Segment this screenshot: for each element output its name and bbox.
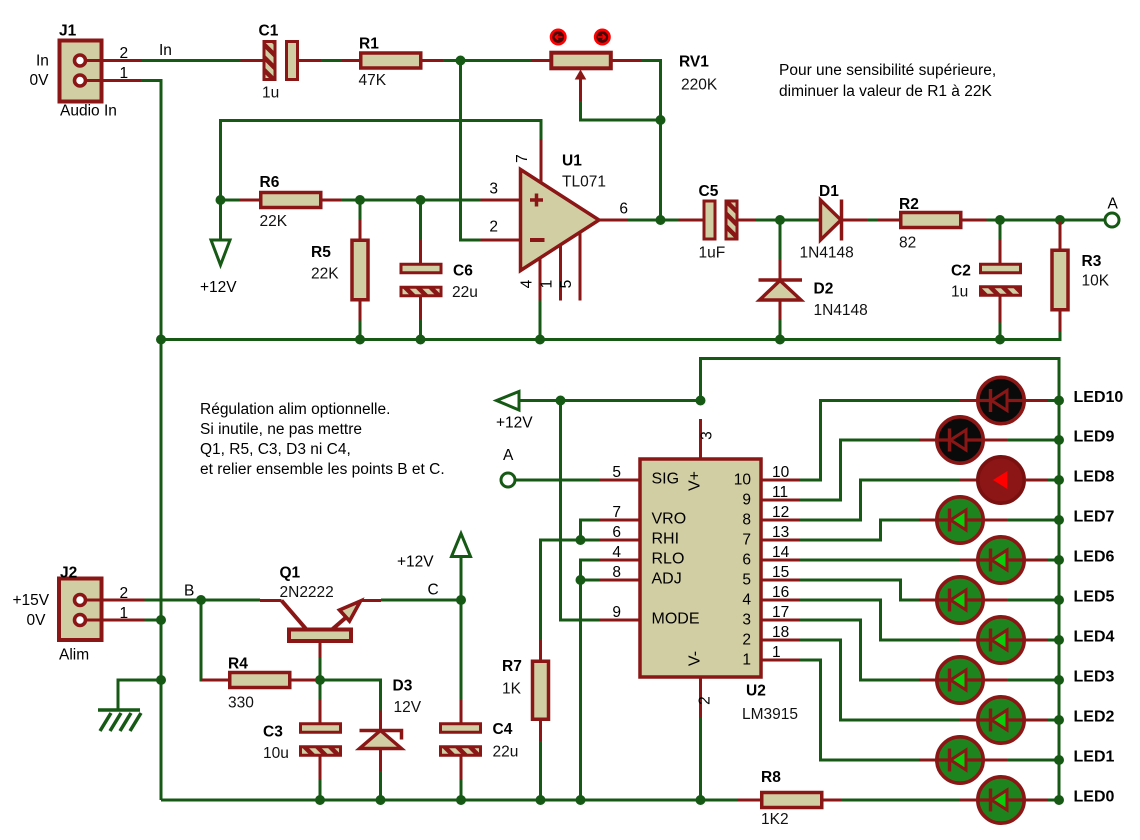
U1 pin 3 stub bbox=[481, 181, 521, 201]
connector J2 Alim bbox=[13, 565, 145, 664]
svg-text:22K: 22K bbox=[260, 213, 288, 230]
svg-text:R7: R7 bbox=[502, 658, 522, 675]
U2 right pin 17 stub bbox=[761, 604, 800, 621]
svg-text:12: 12 bbox=[772, 504, 789, 521]
LED LED0 bbox=[960, 777, 1059, 823]
net label LED4 bbox=[1074, 629, 1115, 646]
wire node to D3 bbox=[320, 680, 381, 711]
svg-text:17: 17 bbox=[772, 604, 789, 621]
capacitor C2 bbox=[951, 220, 1021, 339]
LED LED6 bbox=[960, 537, 1059, 583]
svg-text:In: In bbox=[159, 42, 172, 59]
svg-text:D3: D3 bbox=[393, 678, 413, 695]
junction R4 right node bbox=[315, 675, 325, 685]
junction node C bbox=[456, 595, 466, 605]
wire U2 pin to LED4 bbox=[800, 600, 960, 640]
svg-text:R3: R3 bbox=[1082, 253, 1102, 270]
U1 pin 2 stub bbox=[481, 219, 521, 241]
junction MODE net bbox=[556, 396, 566, 406]
svg-text:12V: 12V bbox=[394, 699, 422, 716]
svg-text:1N4148: 1N4148 bbox=[814, 302, 868, 319]
U2 left pin 6 stub bbox=[600, 524, 640, 541]
U2 inside pin number 5 bbox=[742, 572, 751, 589]
junction bus LED3 bbox=[1054, 675, 1064, 685]
U2 inside pin number 6 bbox=[742, 552, 751, 569]
svg-text:B: B bbox=[184, 583, 194, 600]
note regulation bbox=[200, 401, 445, 478]
resistor R5 bbox=[311, 202, 368, 338]
svg-text:LED9: LED9 bbox=[1074, 429, 1115, 446]
svg-text:A: A bbox=[503, 447, 514, 464]
node A terminal bbox=[1105, 196, 1119, 228]
wire MODE vertical bbox=[561, 401, 601, 621]
svg-text:MODE: MODE bbox=[652, 611, 700, 628]
svg-text:1u: 1u bbox=[262, 85, 279, 102]
junction bottom rail U2 pin2 bbox=[696, 795, 706, 805]
wire U2 pin2 to 0V rail bbox=[699, 718, 702, 798]
junction bus LED7 bbox=[1054, 515, 1064, 525]
svg-text:LED7: LED7 bbox=[1074, 509, 1115, 526]
LED LED10 bbox=[960, 377, 1059, 423]
LED LED1 bbox=[919, 737, 1059, 783]
svg-text:+15V: +15V bbox=[13, 592, 50, 609]
svg-text:C6: C6 bbox=[453, 263, 473, 280]
wire +12V to U2 pin3 bbox=[519, 399, 701, 402]
wire U2 pin to LED9 bbox=[800, 440, 919, 500]
resistor R4 bbox=[201, 656, 318, 712]
svg-text:+12V: +12V bbox=[200, 279, 237, 296]
svg-text:A: A bbox=[1108, 196, 1119, 213]
svg-text:Audio In: Audio In bbox=[60, 103, 117, 120]
svg-text:1K2: 1K2 bbox=[761, 811, 789, 828]
svg-text:LED1: LED1 bbox=[1074, 749, 1115, 766]
wire C5 to D1 bbox=[756, 219, 817, 222]
junction R6 left node bbox=[216, 195, 226, 205]
svg-text:2: 2 bbox=[489, 219, 498, 236]
junction bus LED9 bbox=[1054, 435, 1064, 445]
svg-text:6: 6 bbox=[742, 552, 751, 569]
U2 left pin 7 stub bbox=[600, 504, 640, 521]
svg-text:5: 5 bbox=[558, 280, 575, 289]
svg-text:6: 6 bbox=[619, 201, 628, 218]
net label B bbox=[184, 583, 194, 600]
svg-text:VRO: VRO bbox=[652, 511, 687, 528]
svg-text:R5: R5 bbox=[311, 244, 331, 261]
wire 0V vertical rail bbox=[141, 81, 161, 801]
svg-text:RV1: RV1 bbox=[679, 54, 709, 71]
U2 inside pin number 10 bbox=[734, 472, 752, 489]
U1 pin 5 stub bbox=[558, 233, 580, 301]
svg-text:C4: C4 bbox=[493, 721, 513, 738]
svg-text:1: 1 bbox=[742, 652, 751, 669]
svg-text:R8: R8 bbox=[761, 769, 781, 786]
U2 label SIG bbox=[652, 471, 680, 488]
svg-text:LED0: LED0 bbox=[1074, 789, 1115, 806]
wire RLO net bbox=[581, 560, 601, 580]
potentiometer RV1 bbox=[532, 53, 718, 94]
svg-text:In: In bbox=[36, 53, 49, 70]
diode D2 1N4148 bbox=[759, 220, 868, 339]
svg-text:22K: 22K bbox=[311, 266, 339, 283]
junction bus LED0 bbox=[1054, 795, 1064, 805]
svg-text:10: 10 bbox=[772, 464, 790, 481]
svg-text:C1: C1 bbox=[259, 22, 279, 39]
svg-text:U1: U1 bbox=[562, 153, 582, 170]
wire ADJ net to rail bbox=[581, 580, 601, 798]
svg-text:4: 4 bbox=[612, 544, 621, 561]
svg-text:5: 5 bbox=[612, 464, 621, 481]
junction bus LED5 bbox=[1054, 595, 1064, 605]
diode D1 1N4148 bbox=[800, 183, 868, 262]
junction mid rail C6 bottom bbox=[416, 335, 426, 345]
U2 label V+ bbox=[687, 471, 704, 491]
svg-text:3: 3 bbox=[489, 181, 498, 198]
U2 label RHI bbox=[652, 531, 680, 548]
junction mid rail rail bbox=[156, 335, 166, 345]
U1 pin 4 stub bbox=[519, 258, 541, 338]
junction R5 top bbox=[355, 195, 365, 205]
connector J1 Audio In bbox=[30, 22, 143, 119]
svg-text:10K: 10K bbox=[1082, 273, 1110, 290]
power +12V symbol U1 bbox=[200, 202, 237, 296]
svg-text:D2: D2 bbox=[814, 281, 834, 298]
LED LED7 bbox=[919, 497, 1059, 543]
svg-text:1: 1 bbox=[539, 280, 556, 289]
svg-text:U2: U2 bbox=[746, 683, 766, 700]
wire bottom 0V rail bbox=[161, 799, 738, 802]
svg-text:LED5: LED5 bbox=[1074, 589, 1115, 606]
svg-text:10u: 10u bbox=[263, 745, 289, 762]
net label C bbox=[428, 582, 439, 599]
svg-text:LED6: LED6 bbox=[1074, 549, 1115, 566]
wire U2 pin to LED6 bbox=[800, 559, 960, 562]
svg-text:2: 2 bbox=[120, 45, 129, 62]
resistor R2 bbox=[878, 196, 987, 252]
svg-text:D1: D1 bbox=[819, 183, 839, 200]
svg-text:9: 9 bbox=[742, 492, 751, 509]
U2 pin 3 top stub bbox=[699, 419, 716, 459]
wire U2 pin to LED3 bbox=[800, 620, 919, 680]
svg-text:6: 6 bbox=[612, 524, 621, 541]
LED LED4 bbox=[960, 617, 1059, 663]
junction output node bbox=[656, 215, 666, 225]
U2 inside pin number 8 bbox=[742, 512, 751, 529]
transistor Q1 2N2222 bbox=[260, 565, 381, 659]
U2 right pin 10 stub bbox=[761, 464, 800, 481]
wire wiper to output node bbox=[581, 101, 661, 120]
U1 pin 6 stub bbox=[599, 201, 628, 221]
wire feedback to pin2 bbox=[461, 61, 481, 241]
svg-text:7: 7 bbox=[742, 532, 751, 549]
svg-text:1: 1 bbox=[120, 605, 129, 622]
svg-text:47K: 47K bbox=[359, 72, 387, 89]
note top right bbox=[779, 62, 996, 100]
net label LED0 bbox=[1074, 789, 1115, 806]
wire D1 to R2 bbox=[867, 219, 878, 222]
U2 inside pin number 3 bbox=[742, 612, 751, 629]
wire J2.2 to B bbox=[145, 599, 261, 602]
junction bottom rail R7 bbox=[536, 795, 546, 805]
junction mid rail C2 bottom bbox=[995, 335, 1005, 345]
LED LED2 bbox=[960, 697, 1059, 743]
svg-text:R2: R2 bbox=[899, 196, 919, 213]
svg-text:10: 10 bbox=[734, 472, 752, 489]
svg-text:R1: R1 bbox=[359, 36, 379, 53]
junction C6 top bbox=[416, 195, 426, 205]
svg-text:Q1, R5, C3, D3 ni C4,: Q1, R5, C3, D3 ni C4, bbox=[200, 441, 351, 458]
wire C1 to R1 bbox=[321, 59, 342, 62]
svg-text:LED3: LED3 bbox=[1074, 669, 1115, 686]
svg-text:C3: C3 bbox=[263, 724, 283, 741]
wire U2 pin to LED8 bbox=[800, 480, 960, 520]
svg-text:1: 1 bbox=[772, 644, 781, 661]
svg-text:1uF: 1uF bbox=[699, 245, 726, 262]
power +12V symbol U2 bbox=[496, 392, 533, 432]
svg-text:TL071: TL071 bbox=[562, 173, 606, 190]
svg-text:LED2: LED2 bbox=[1074, 709, 1115, 726]
RV1 wiper arrow bbox=[575, 70, 587, 102]
power +12V symbol C bbox=[397, 534, 471, 601]
junction VRO-RHI bbox=[576, 535, 586, 545]
U2 right pin 11 stub bbox=[761, 484, 800, 501]
svg-text:V-: V- bbox=[687, 651, 704, 666]
junction R3 top node bbox=[1055, 215, 1065, 225]
svg-text:9: 9 bbox=[612, 604, 621, 621]
junction bottom rail D3 bbox=[376, 795, 386, 805]
svg-text:1u: 1u bbox=[951, 284, 968, 301]
zener D3 12V bbox=[360, 678, 422, 799]
wire U2 pin to LED2 bbox=[800, 640, 960, 720]
wire U2 pin to LED7 bbox=[800, 520, 919, 540]
svg-text:Pour une sensibilité supérieur: Pour une sensibilité supérieure, bbox=[779, 62, 996, 79]
pot button increase bbox=[595, 30, 609, 44]
U1 pin 1 stub bbox=[539, 245, 561, 301]
svg-text:4: 4 bbox=[519, 279, 536, 288]
op-amp U1 TL071 bbox=[521, 153, 606, 271]
U2 right pin 12 stub bbox=[761, 504, 800, 521]
wire J2.1 to 0V rail bbox=[145, 619, 162, 622]
svg-text:RLO: RLO bbox=[652, 551, 685, 568]
svg-text:et relier ensemble les points: et relier ensemble les points B et C. bbox=[200, 461, 445, 478]
svg-text:Si inutile, ne pas mettre: Si inutile, ne pas mettre bbox=[200, 421, 362, 438]
svg-text:7: 7 bbox=[612, 504, 621, 521]
junction bus LED8 bbox=[1054, 475, 1064, 485]
junction bottom rail C3 bbox=[315, 795, 325, 805]
U2 label ADJ bbox=[652, 571, 682, 588]
svg-text:C2: C2 bbox=[951, 263, 971, 280]
wire U2 pin to LED10 bbox=[800, 401, 960, 481]
svg-text:18: 18 bbox=[772, 624, 789, 641]
svg-text:1K: 1K bbox=[502, 681, 522, 698]
junction mid rail R5 bottom bbox=[355, 335, 365, 345]
junction R1-RV1-U1.2 node bbox=[456, 56, 466, 66]
junction bus LED2 bbox=[1054, 715, 1064, 725]
U2 pin 2 bottom stub bbox=[697, 677, 714, 718]
U2 left pin 9 stub bbox=[600, 604, 640, 621]
svg-text:1: 1 bbox=[120, 65, 129, 82]
capacitor C6 bbox=[401, 202, 478, 338]
LED LED9 bbox=[919, 417, 1059, 463]
resistor R3 bbox=[1052, 222, 1110, 332]
resistor R6 bbox=[221, 174, 342, 230]
net label LED10 bbox=[1074, 389, 1124, 406]
svg-text:22u: 22u bbox=[452, 284, 478, 301]
wire pin3 to LED bus top bbox=[701, 359, 1060, 801]
net label LED5 bbox=[1074, 589, 1115, 606]
svg-text:1N4148: 1N4148 bbox=[800, 245, 854, 262]
svg-text:2: 2 bbox=[697, 696, 714, 705]
svg-text:Q1: Q1 bbox=[280, 565, 301, 582]
wire R6 to U1.3 bbox=[341, 199, 481, 202]
svg-text:R4: R4 bbox=[228, 656, 248, 673]
junction RLO-ADJ bbox=[576, 575, 586, 585]
junction bus LED1 bbox=[1054, 755, 1064, 765]
svg-text:2: 2 bbox=[742, 632, 751, 649]
svg-text:ADJ: ADJ bbox=[652, 571, 682, 588]
net label LED6 bbox=[1074, 549, 1115, 566]
svg-text:82: 82 bbox=[899, 235, 916, 252]
svg-text:J1: J1 bbox=[59, 22, 77, 39]
junction bottom rail ADJ bbox=[576, 795, 586, 805]
capacitor C3 bbox=[263, 682, 341, 798]
IC U2 LM3915 body bbox=[640, 459, 798, 723]
wire R8 to LED0 bbox=[842, 799, 962, 802]
junction C2 top node bbox=[995, 215, 1005, 225]
net label LED9 bbox=[1074, 429, 1115, 446]
U2 inside pin number 7 bbox=[742, 532, 751, 549]
U2 right pin 16 stub bbox=[761, 584, 800, 601]
svg-text:5: 5 bbox=[742, 572, 751, 589]
wire Q1 base net bbox=[319, 658, 322, 680]
svg-text:3: 3 bbox=[699, 431, 716, 440]
net label LED8 bbox=[1074, 469, 1115, 486]
svg-text:diminuer la valeur de R1 à 22K: diminuer la valeur de R1 à 22K bbox=[779, 83, 992, 100]
wire R1 to RV1 bbox=[443, 59, 551, 62]
svg-text:3: 3 bbox=[742, 612, 751, 629]
junction node B bbox=[196, 595, 206, 605]
junction bus LED6 bbox=[1054, 555, 1064, 565]
U2 label RLO bbox=[652, 551, 685, 568]
junction ground branch bbox=[156, 675, 166, 685]
U2 label VRO bbox=[652, 511, 687, 528]
wire R2 to node A bbox=[987, 219, 1105, 222]
wire RV1 right to output bbox=[642, 61, 661, 221]
svg-text:+12V: +12V bbox=[397, 554, 434, 571]
U2 left pin 4 stub bbox=[600, 544, 640, 561]
svg-text:330: 330 bbox=[228, 695, 254, 712]
svg-text:J2: J2 bbox=[60, 565, 77, 582]
svg-text:+12V: +12V bbox=[496, 415, 533, 432]
U2 inside pin number 1 bbox=[742, 652, 751, 669]
wire RHI net to R7 bbox=[541, 540, 601, 542]
svg-text:C: C bbox=[428, 582, 439, 599]
svg-text:7: 7 bbox=[514, 154, 531, 163]
svg-text:13: 13 bbox=[772, 524, 789, 541]
resistor R1 bbox=[342, 36, 443, 89]
svg-text:4: 4 bbox=[742, 592, 751, 609]
svg-text:LED8: LED8 bbox=[1074, 469, 1115, 486]
wire VRO net bbox=[581, 520, 601, 540]
svg-text:C5: C5 bbox=[699, 183, 719, 200]
junction pin3 net bbox=[696, 396, 706, 406]
junction mid rail D2 bottom bbox=[775, 335, 785, 345]
svg-text:SIG: SIG bbox=[652, 471, 680, 488]
svg-text:8: 8 bbox=[612, 564, 621, 581]
net label In bbox=[159, 42, 172, 59]
svg-text:22u: 22u bbox=[493, 744, 519, 761]
svg-text:16: 16 bbox=[772, 584, 789, 601]
U2 left pin 8 stub bbox=[600, 564, 640, 581]
resistor R7 bbox=[502, 540, 549, 798]
U2 inside pin number 2 bbox=[742, 632, 751, 649]
U2 right pin 1 stub bbox=[761, 644, 800, 661]
net label LED7 bbox=[1074, 509, 1115, 526]
svg-text:8: 8 bbox=[742, 512, 751, 529]
ground symbol bbox=[98, 710, 141, 731]
junction wiper node bbox=[656, 115, 666, 125]
svg-text:LED10: LED10 bbox=[1074, 389, 1124, 406]
U2 label MODE bbox=[652, 611, 700, 628]
U2 right pin 14 stub bbox=[761, 544, 800, 561]
U2 label V- bbox=[687, 651, 704, 666]
svg-text:0V: 0V bbox=[30, 72, 50, 89]
LED LED3 bbox=[919, 657, 1059, 703]
LED LED8 bbox=[960, 457, 1059, 503]
wire mid 0V rail bbox=[161, 332, 1060, 340]
U2 right pin 13 stub bbox=[761, 524, 800, 541]
net label LED3 bbox=[1074, 669, 1115, 686]
junction mid rail U1 pin4 bbox=[535, 335, 545, 345]
svg-text:RHI: RHI bbox=[652, 531, 680, 548]
junction D1-D2 node bbox=[775, 215, 785, 225]
wire A to SIG bbox=[515, 479, 600, 482]
svg-text:R6: R6 bbox=[260, 174, 280, 191]
pot button decrease bbox=[551, 30, 565, 44]
svg-text:LED4: LED4 bbox=[1074, 629, 1115, 646]
resistor R8 bbox=[738, 769, 842, 828]
svg-text:14: 14 bbox=[772, 544, 790, 561]
wire net In J1.2 to C1 bbox=[142, 59, 241, 62]
svg-text:0V: 0V bbox=[27, 612, 47, 629]
capacitor C4 bbox=[441, 600, 519, 798]
wire +12V U1 net bbox=[221, 121, 542, 199]
svg-text:2N2222: 2N2222 bbox=[280, 584, 334, 601]
U2 inside pin number 4 bbox=[742, 592, 751, 609]
junction bus LED4 bbox=[1054, 635, 1064, 645]
svg-text:2: 2 bbox=[120, 585, 129, 602]
capacitor C1 bbox=[241, 22, 322, 101]
U2 inside pin number 9 bbox=[742, 492, 751, 509]
svg-text:V+: V+ bbox=[687, 471, 704, 491]
U1 pin 7 stub bbox=[514, 139, 541, 184]
net label LED1 bbox=[1074, 749, 1115, 766]
wire U2 pin to LED5 bbox=[800, 580, 919, 600]
svg-text:15: 15 bbox=[772, 564, 789, 581]
U2 left pin 5 stub bbox=[600, 464, 640, 481]
U2 right pin 15 stub bbox=[761, 564, 800, 581]
wire U1 output bbox=[628, 219, 679, 222]
svg-text:Régulation alim optionnelle.: Régulation alim optionnelle. bbox=[200, 401, 390, 418]
svg-text:220K: 220K bbox=[681, 77, 718, 94]
svg-text:LM3915: LM3915 bbox=[742, 706, 798, 723]
junction bottom rail C4 bbox=[456, 795, 466, 805]
junction bus LED10 bbox=[1054, 396, 1064, 406]
wire B down to R4 bbox=[201, 600, 206, 680]
wire U2 pin to LED1 bbox=[800, 660, 919, 760]
wire to ground bbox=[118, 680, 161, 710]
net label LED2 bbox=[1074, 709, 1115, 726]
svg-text:Alim: Alim bbox=[59, 647, 89, 664]
